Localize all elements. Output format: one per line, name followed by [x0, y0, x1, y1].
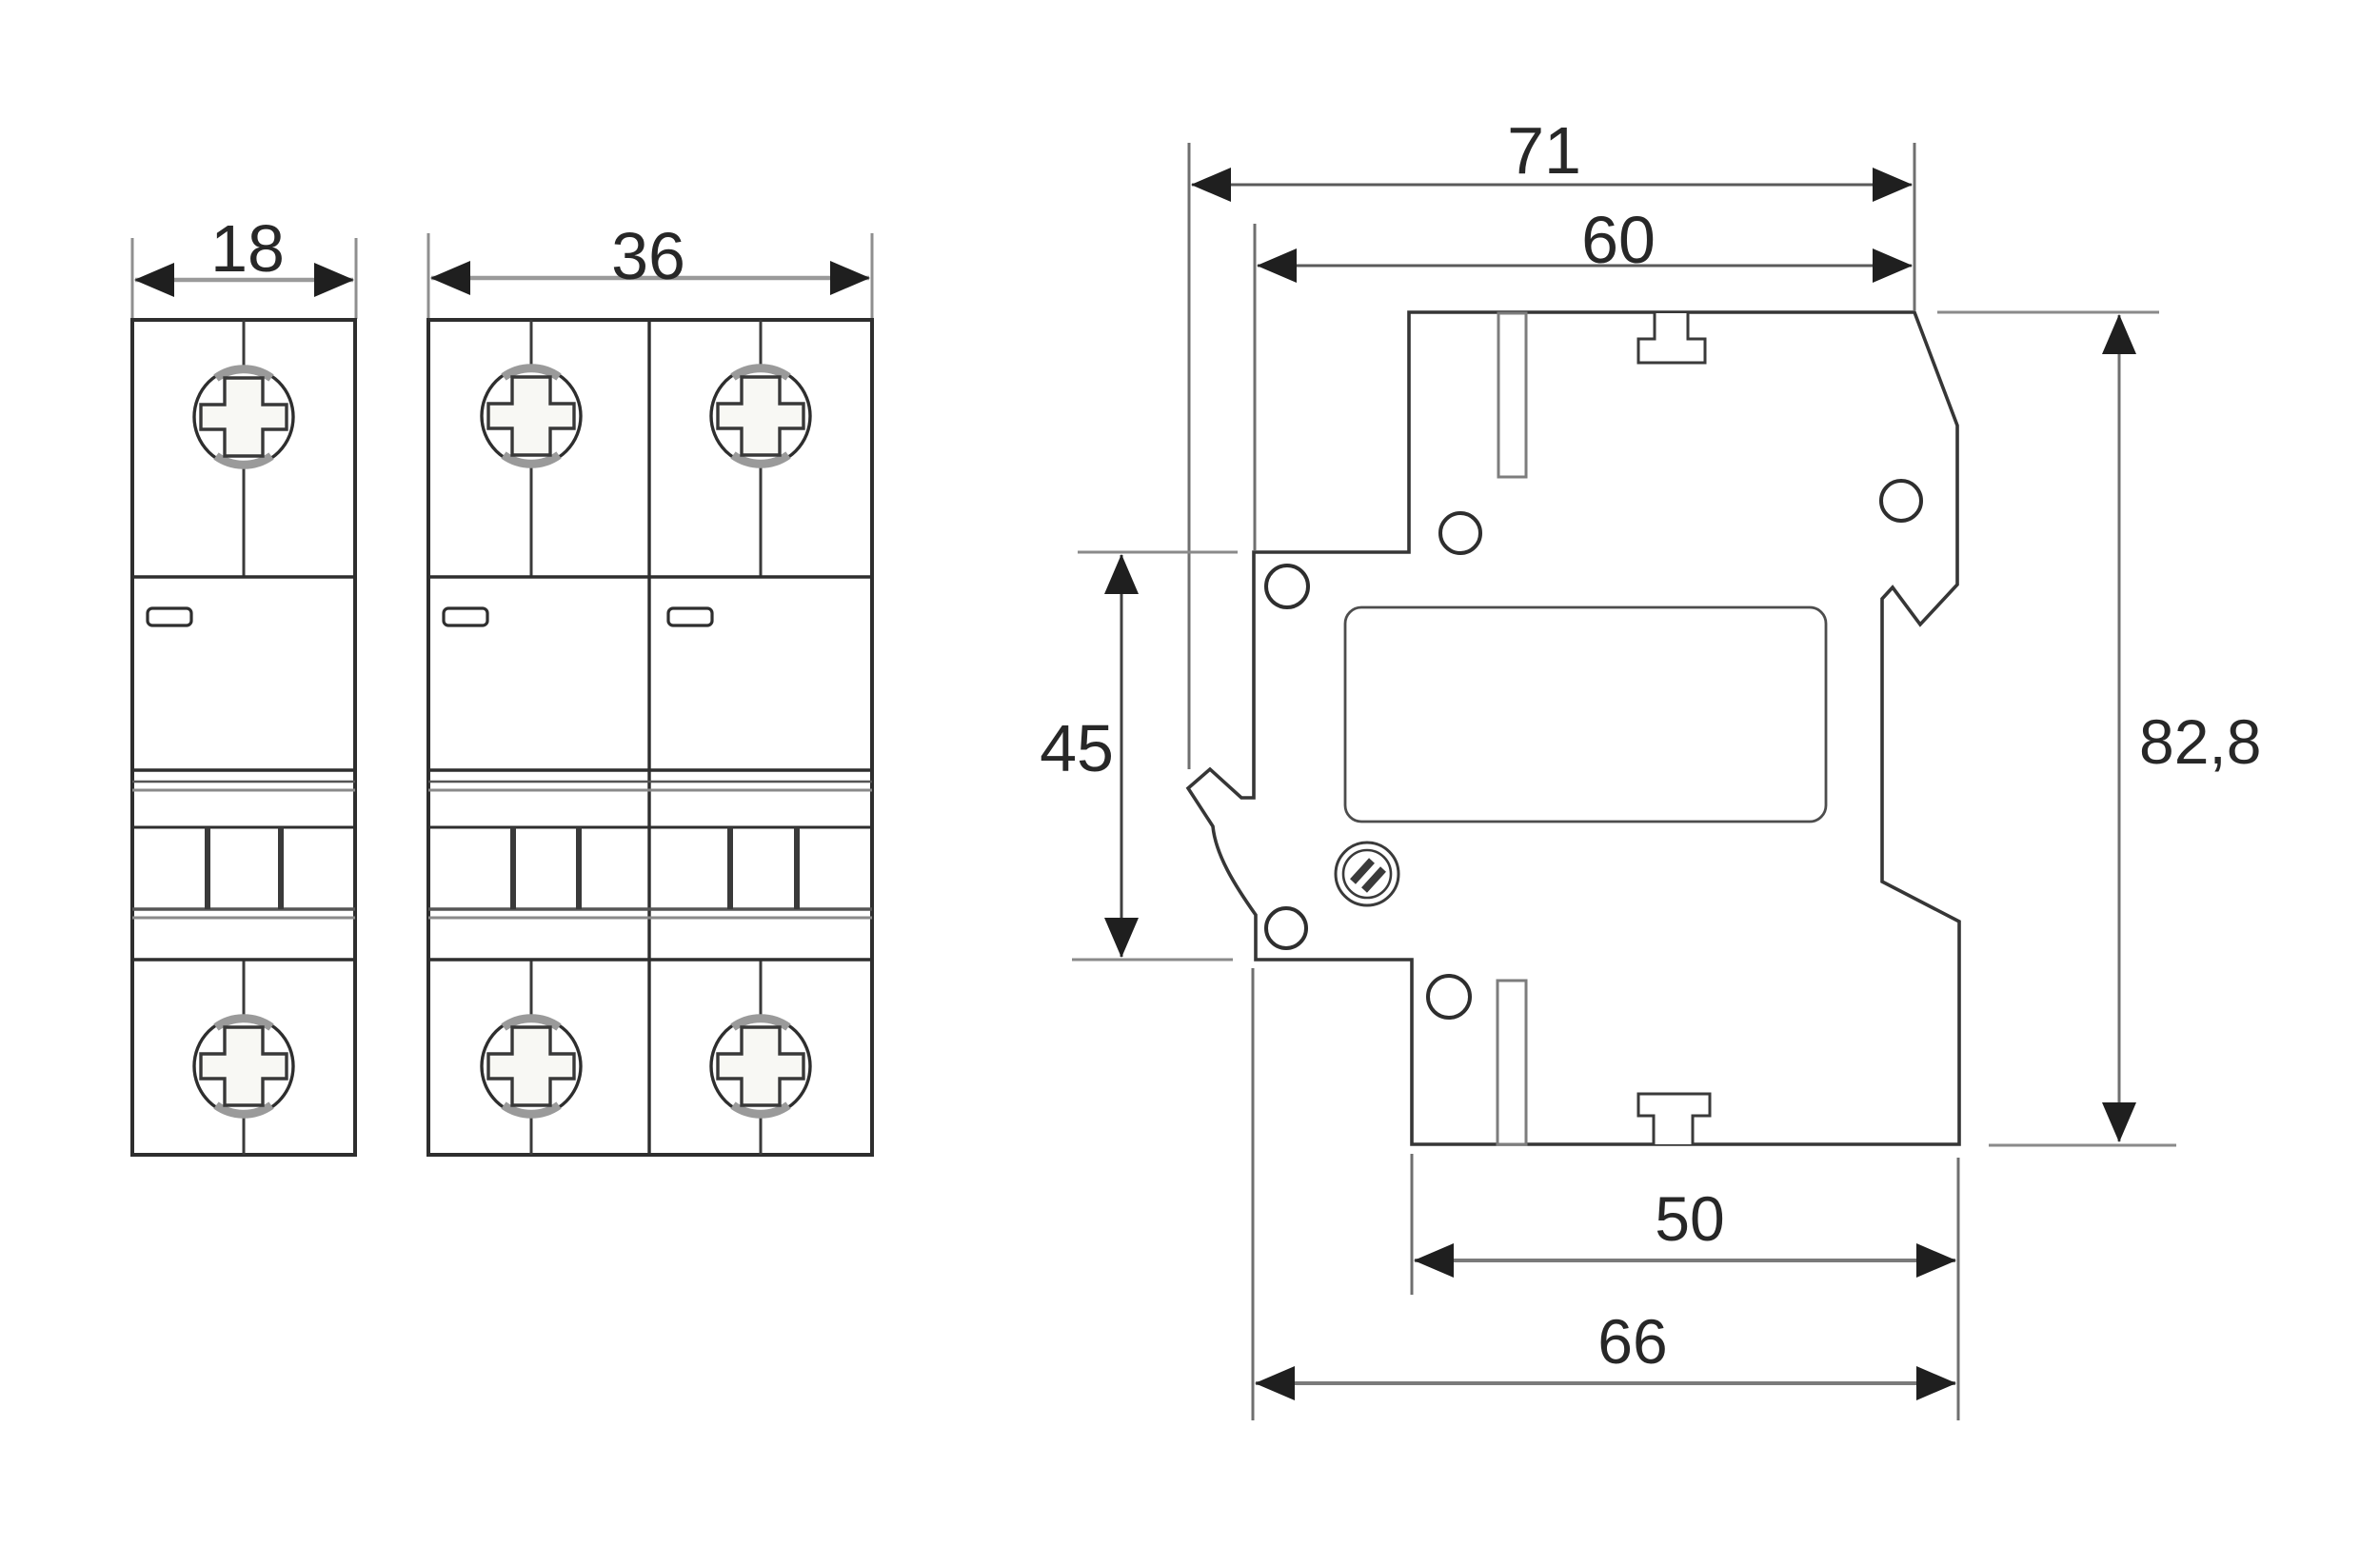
toggle zone bottom line pair	[132, 907, 355, 910]
svg-text:45: 45	[1040, 711, 1114, 785]
bottom T tab	[1638, 1094, 1710, 1144]
bottom vertical slot	[1497, 981, 1526, 1144]
lower section line	[132, 958, 355, 961]
toggle handle	[205, 827, 210, 909]
pole A bottom screw terminal	[482, 1017, 581, 1116]
svg-text:50: 50	[1655, 1183, 1724, 1254]
pole A top center line	[530, 320, 533, 577]
dimension 50 extension lines	[1411, 1154, 1414, 1295]
side view body outline	[1188, 312, 1959, 1144]
dimension 82,8 line	[2118, 315, 2121, 1141]
svg-text:66: 66	[1597, 1306, 1667, 1377]
pole A top screw terminal	[482, 367, 581, 466]
dimension 45 line	[1121, 555, 1123, 957]
svg-text:60: 60	[1581, 203, 1656, 277]
hole bottom	[1428, 976, 1470, 1018]
dimension 71 line	[1192, 184, 1912, 187]
top vertical slot	[1498, 313, 1526, 477]
internal line	[428, 768, 872, 771]
hole upper middle	[1440, 513, 1480, 553]
pole divider line	[647, 320, 650, 1155]
toggle zone top line	[428, 826, 872, 829]
top terminal center line	[243, 320, 246, 577]
dimension 66 line	[1256, 1381, 1955, 1385]
hole left column	[1266, 565, 1308, 607]
1-pole body outline	[132, 320, 355, 1155]
dimension 60 extension line	[1254, 224, 1257, 550]
dimension 18 extension lines	[131, 238, 134, 319]
toggle zone top line	[132, 826, 355, 829]
lower section line	[428, 958, 872, 961]
internal line pair	[428, 781, 872, 783]
section divider line	[428, 575, 872, 578]
toggle zone bottom line pair	[428, 907, 872, 910]
hole lower left	[1266, 908, 1306, 948]
pole A window slot	[444, 608, 487, 625]
pole B bottom screw terminal	[711, 1017, 810, 1116]
dimension 60 line	[1258, 265, 1912, 268]
label rounded rectangle	[1345, 607, 1826, 822]
bottom screw terminal	[194, 1017, 293, 1116]
svg-text:36: 36	[611, 219, 685, 293]
hole upper right	[1881, 481, 1921, 521]
dimension 82,8 extension lines	[1937, 311, 2159, 314]
svg-text:18: 18	[210, 211, 285, 286]
dimension 36 extension lines	[427, 233, 430, 319]
dimension 18 line	[135, 278, 353, 283]
pole A toggle handle	[510, 827, 516, 909]
dimension 45 extension lines	[1078, 551, 1238, 554]
bottom terminal center line	[243, 960, 246, 1155]
pole B window slot	[668, 608, 712, 625]
2-pole body outline	[428, 320, 872, 1155]
pole A bottom center line	[530, 960, 533, 1155]
screw adjustment symbol	[1336, 843, 1398, 905]
internal line	[132, 768, 355, 771]
top screw terminal	[194, 367, 293, 466]
pole B top center line	[760, 320, 763, 577]
window slot	[148, 608, 191, 625]
top T tab	[1638, 313, 1705, 363]
svg-text:82,8: 82,8	[2139, 706, 2261, 777]
pole B top screw terminal	[711, 367, 810, 466]
pole B bottom center line	[760, 960, 763, 1155]
dimension 71 extension lines	[1188, 143, 1191, 769]
pole B toggle handle	[727, 827, 733, 909]
internal line pair	[132, 781, 355, 783]
dimension 50 line	[1415, 1259, 1955, 1262]
section divider line	[132, 575, 355, 578]
dimension 36 line	[431, 276, 869, 281]
dimension 66 extension line	[1252, 968, 1255, 1420]
svg-text:71: 71	[1507, 113, 1581, 188]
